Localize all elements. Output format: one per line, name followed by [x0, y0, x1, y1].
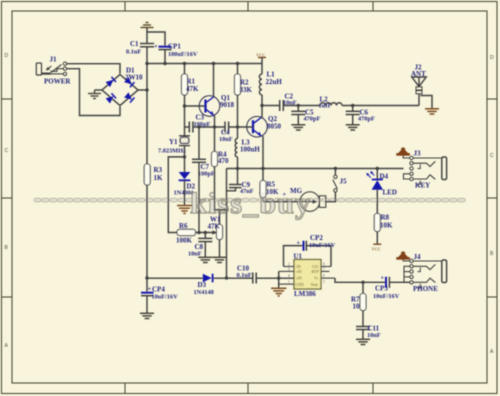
- capacitor C2 10nF: [280, 93, 297, 112]
- node bus junctions: [145, 62, 239, 65]
- wire R6 wiper line: [196, 232, 215, 234]
- svg-text:BYP: BYP: [312, 270, 319, 274]
- capacitor C7 100pF: [192, 127, 215, 178]
- resistor R3 1K: [144, 164, 163, 185]
- svg-text:J1: J1: [50, 56, 58, 64]
- wire emitter to R4: [214, 127, 216, 152]
- wire left rail lower: [146, 185, 148, 278]
- svg-text:LED: LED: [383, 189, 397, 197]
- svg-text:GS1: GS1: [312, 265, 319, 269]
- wire Q2 collector up: [261, 106, 263, 119]
- inductor L3 100uH: [235, 127, 260, 169]
- ground below W1: [213, 257, 227, 262]
- svg-text:LM386: LM386: [294, 290, 316, 298]
- svg-text:C1: C1: [130, 40, 139, 48]
- svg-text:2: 2: [288, 263, 290, 267]
- power VCC above L1: [256, 53, 266, 64]
- wire J1 pin1 to bridge AC top: [67, 64, 120, 74]
- svg-text:10uF/16V: 10uF/16V: [152, 294, 179, 301]
- svg-text:CP3: CP3: [375, 285, 388, 293]
- capacitor CP3 10uF/16V: [373, 275, 400, 301]
- svg-text:R8: R8: [381, 214, 390, 222]
- svg-text:Y1: Y1: [169, 138, 178, 146]
- wire key line corner down to audio line: [226, 169, 228, 279]
- wire bridge minus to ground: [95, 89, 103, 91]
- resistor R4 470: [212, 151, 230, 167]
- svg-text:0.1uF: 0.1uF: [126, 49, 141, 56]
- power VCC below R8: [372, 232, 382, 252]
- watermark dashes: [34, 198, 465, 202]
- wire C7 down to R6 wiper line: [198, 162, 200, 232]
- svg-text:VCC: VCC: [372, 247, 381, 252]
- capacitor C3 100pF: [189, 114, 210, 133]
- node C7 wiper junction: [197, 231, 200, 234]
- antenna J2 ANT: [411, 64, 426, 106]
- capacitor C4 10nF: [219, 122, 233, 144]
- svg-text:+: +: [148, 286, 152, 293]
- wire ANT shield stub: [421, 96, 433, 109]
- svg-text:47K: 47K: [208, 223, 221, 231]
- svg-text:POWER: POWER: [44, 78, 71, 86]
- wire Y1 to D2: [184, 146, 186, 172]
- node key-corner junction on audio line: [225, 276, 228, 279]
- svg-text:J5: J5: [340, 178, 348, 186]
- wiper arrow into W1: [212, 230, 217, 234]
- svg-text:3: 3: [288, 267, 290, 271]
- svg-text:kiss_buy: kiss_buy: [190, 187, 311, 220]
- svg-text:R3: R3: [154, 166, 163, 174]
- wire mic line: [263, 201, 300, 203]
- ground below C5: [291, 125, 305, 130]
- wire base coupling line y127: [185, 126, 190, 128]
- svg-text:33K: 33K: [240, 86, 253, 94]
- svg-text:10nF: 10nF: [188, 251, 202, 258]
- capacitor C5 470pF: [291, 106, 320, 125]
- wire C1 to VCC bus: [146, 47, 148, 64]
- node C8 tap: [204, 231, 207, 234]
- svg-text:R6: R6: [179, 222, 188, 230]
- microphone MG: [283, 187, 326, 211]
- wire J4 pin1 to earth: [403, 260, 410, 262]
- svg-text:C: C: [5, 148, 9, 154]
- wire key line: [227, 168, 404, 170]
- svg-text:10nF: 10nF: [283, 100, 297, 107]
- svg-text:D: D: [490, 55, 494, 61]
- wire R2 to base line: [237, 95, 239, 127]
- svg-text:CP1: CP1: [168, 43, 181, 51]
- wire R1 junction down to C3: [184, 106, 186, 136]
- svg-text:D4: D4: [380, 173, 389, 181]
- potentiometer W1 47K: [208, 210, 223, 257]
- transistor Q2 8050: [247, 115, 282, 137]
- earth symbol at J4: [397, 252, 410, 259]
- svg-text:PHONE: PHONE: [413, 285, 438, 293]
- node C7 tap: [197, 125, 200, 128]
- wire CP1 to bus: [164, 50, 166, 64]
- wire CP1 top L to ground stem: [147, 32, 165, 46]
- svg-text:100pF: 100pF: [198, 171, 215, 178]
- wire R6 left to Y1 junction: [168, 157, 184, 233]
- svg-text:Vout: Vout: [311, 283, 319, 287]
- svg-text:100uF/16V: 100uF/16V: [168, 51, 198, 58]
- node key line junctions: [236, 167, 379, 170]
- wire ground to C1: [146, 30, 148, 43]
- node Q1 base junction: [183, 104, 186, 107]
- svg-text:100uH: 100uH: [240, 146, 260, 154]
- node CP4 junction: [145, 276, 148, 279]
- svg-text:470pF: 470pF: [358, 116, 375, 123]
- node C5 tap: [297, 104, 300, 107]
- diode D2 1N4001: [174, 172, 196, 196]
- node R2-L3 tap: [236, 125, 239, 128]
- svg-text:9018: 9018: [220, 101, 235, 109]
- node C6 tap: [351, 104, 354, 107]
- node rail crossing: [277, 276, 280, 279]
- wire Q1 collector to bus: [213, 64, 215, 98]
- svg-text:CP4: CP4: [152, 286, 165, 294]
- switch J5: [333, 169, 347, 193]
- wire D4 to R8: [376, 190, 378, 214]
- resistor R8 10K: [374, 214, 393, 232]
- transistor Q1 9018: [199, 94, 234, 116]
- capacitor CP2 10uF/16V gain loop: [284, 234, 336, 267]
- wire Q2 emitter down to key line: [262, 136, 264, 169]
- svg-text:22uH: 22uH: [266, 78, 283, 86]
- wire left rail upper: [146, 64, 148, 165]
- wire J3 pin1 to earth: [403, 156, 410, 159]
- svg-text:8050: 8050: [267, 123, 282, 131]
- svg-text:CP2: CP2: [310, 234, 323, 242]
- capacitor C8 10nF: [188, 233, 212, 258]
- wire U1 ground rail: [278, 271, 280, 288]
- ground below C8: [198, 257, 212, 262]
- capacitor CP4 10uF/16V: [141, 278, 178, 313]
- wire VCC bus: [147, 63, 262, 65]
- capacitor C1 0.1uF: [126, 40, 154, 56]
- svg-text:10uF/16V: 10uF/16V: [309, 242, 336, 249]
- svg-text:7: 7: [323, 267, 325, 271]
- node bridge plus junction: [145, 88, 148, 91]
- resistor R7 10: [351, 282, 366, 326]
- ground top rail (inverted): [141, 23, 154, 32]
- svg-text:Vs: Vs: [314, 277, 319, 281]
- capacitor C6 470pF: [346, 106, 375, 125]
- wire R1 to Q1 base: [184, 95, 186, 106]
- svg-text:10nF: 10nF: [219, 136, 233, 143]
- svg-text:10K: 10K: [380, 222, 393, 230]
- ground below C11: [356, 339, 370, 344]
- svg-text:D: D: [5, 53, 9, 59]
- diode D3 1N4148: [194, 274, 214, 296]
- svg-text:KEY: KEY: [415, 182, 430, 190]
- svg-text:6: 6: [323, 274, 325, 278]
- svg-text:1N4148: 1N4148: [194, 289, 214, 296]
- node Y1-R6 junction: [183, 155, 186, 158]
- resistor R2 33K: [235, 64, 253, 96]
- LED D4: [366, 169, 397, 197]
- svg-text:-IN: -IN: [296, 265, 302, 269]
- svg-text:8: 8: [323, 263, 325, 267]
- svg-text:47K: 47K: [186, 85, 199, 93]
- wire mic to J5: [326, 192, 336, 201]
- inductor L1 22uH: [259, 64, 282, 95]
- connector J4 PHONE jack: [404, 253, 447, 293]
- ground below CP4: [140, 313, 154, 318]
- node R7 tap: [361, 281, 364, 284]
- wire J1 pin2 to bridge AC bottom: [67, 69, 120, 116]
- ground below D2: [177, 206, 192, 214]
- svg-text:4: 4: [288, 274, 290, 278]
- ground at bridge: [88, 90, 101, 99]
- svg-text:D3: D3: [198, 281, 207, 289]
- svg-text:10nF: 10nF: [367, 332, 381, 339]
- svg-text:+IN: +IN: [296, 277, 302, 281]
- bridge rectifier D1 2W10: [102, 67, 143, 106]
- op-amp U1 LM386: [279, 253, 335, 299]
- svg-text:1: 1: [288, 280, 290, 284]
- svg-text:J4: J4: [414, 253, 422, 261]
- node emitter tap: [213, 125, 216, 128]
- inductor L2 1uH: [319, 96, 343, 110]
- node W1 jog: [225, 208, 228, 211]
- svg-text:+: +: [297, 240, 301, 247]
- svg-text:2W10: 2W10: [125, 74, 143, 82]
- svg-text:U1: U1: [294, 253, 303, 261]
- svg-text:J3: J3: [414, 150, 422, 158]
- svg-text:100K: 100K: [176, 237, 193, 245]
- wire L1 to antenna line: [261, 95, 263, 106]
- svg-text:+IN: +IN: [296, 270, 302, 274]
- svg-text:10uF/16V: 10uF/16V: [373, 293, 400, 300]
- svg-text:10: 10: [353, 303, 361, 311]
- capacitor C9 47nF: [227, 169, 254, 196]
- resistor R5 10K: [260, 169, 279, 202]
- svg-text:470pF: 470pF: [304, 116, 321, 123]
- svg-text:5: 5: [323, 280, 325, 284]
- wire U1 output line: [335, 278, 386, 282]
- wire antenna line: [262, 105, 280, 107]
- ground below U1: [271, 288, 286, 296]
- ground at ANT: [425, 109, 439, 114]
- svg-text:1K: 1K: [154, 174, 164, 182]
- node Q2 collector junction: [260, 104, 263, 107]
- wire audio input line: [147, 277, 203, 279]
- svg-text:VCC: VCC: [256, 53, 265, 58]
- capacitor CP1 100uF/16V polarized: [154, 43, 198, 59]
- wire bridge plus to left rail: [138, 89, 147, 91]
- earth symbol at J3: [397, 148, 410, 155]
- capacitor C10 0.1uF: [237, 265, 257, 284]
- crystal Y1 7.023MHz: [158, 136, 190, 155]
- svg-text:0.1uF: 0.1uF: [237, 272, 252, 279]
- svg-text:7.023MHz: 7.023MHz: [158, 148, 186, 155]
- resistor R1 47K: [182, 64, 200, 96]
- connector J3 KEY jack: [404, 150, 447, 190]
- connector J1 POWER: [36, 56, 71, 86]
- wire D2 to ground: [184, 180, 186, 205]
- svg-text:+: +: [381, 275, 385, 282]
- svg-text:+: +: [154, 43, 158, 50]
- wire R4 bottom down and jog to W1 top: [215, 167, 227, 210]
- resistor R6 100K: [176, 222, 196, 245]
- svg-text:100pF: 100pF: [194, 121, 211, 128]
- wire base to Q1: [185, 105, 206, 107]
- svg-text:GND: GND: [296, 283, 304, 287]
- svg-text:1uH: 1uH: [319, 103, 331, 110]
- capacitor C11 10nF: [356, 325, 381, 340]
- ground below C6: [346, 125, 360, 130]
- svg-text:470: 470: [218, 157, 229, 165]
- svg-text:ANT: ANT: [411, 70, 426, 78]
- svg-text:C: C: [490, 153, 494, 159]
- wire Q1 emitter down: [214, 116, 216, 128]
